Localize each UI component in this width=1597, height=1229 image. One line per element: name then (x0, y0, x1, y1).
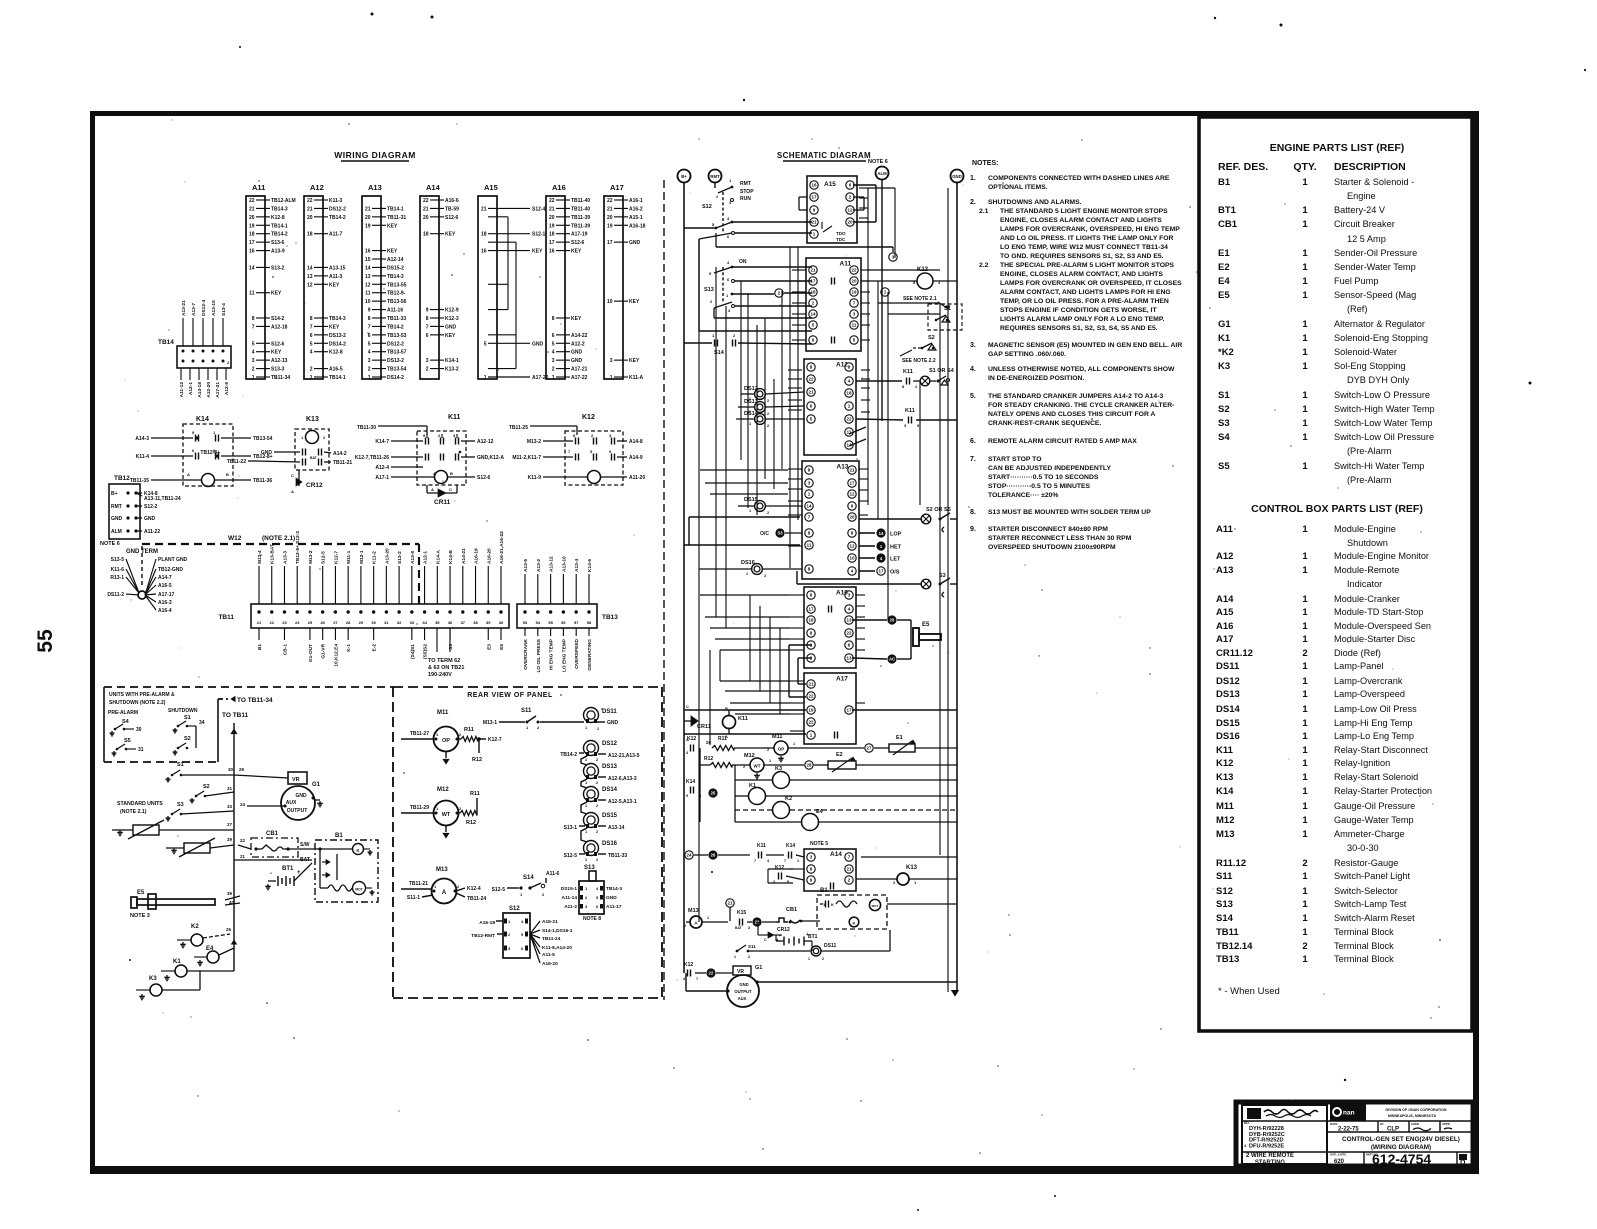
svg-text:START··········0.5 TO 10 SECON: START··········0.5 TO 10 SECONDS (988, 474, 1099, 481)
svg-text:KEY: KEY (329, 282, 340, 288)
svg-text:1: 1 (1302, 418, 1308, 429)
svg-text:A12-1: A12-1 (423, 551, 429, 564)
svg-text:S2 OR S5: S2 OR S5 (926, 507, 951, 513)
svg-text:A13-20: A13-20 (384, 548, 390, 564)
svg-text:1: 1 (585, 858, 587, 862)
svg-text:2: 2 (252, 367, 255, 373)
svg-text:17: 17 (549, 240, 555, 246)
svg-text:K11: K11 (903, 369, 913, 375)
svg-text:K12-8: K12-8 (271, 215, 285, 221)
svg-text:+: + (806, 932, 809, 938)
svg-text:12 5 Amp: 12 5 Amp (1347, 234, 1386, 244)
svg-text:E-2: E-2 (372, 644, 378, 652)
svg-text:55: 55 (548, 620, 553, 625)
svg-text:A13-4: A13-4 (574, 559, 580, 572)
svg-text:1.: 1. (970, 175, 976, 182)
svg-text:Module-Cranker: Module-Cranker (1334, 594, 1400, 604)
svg-text:K12-7,TB11-26: K12-7,TB11-26 (355, 455, 389, 461)
svg-text:A13-15: A13-15 (329, 265, 346, 271)
svg-text:190-240V: 190-240V (428, 672, 452, 678)
svg-text:* - When Used: * - When Used (1218, 986, 1280, 997)
svg-text:A17-21: A17-21 (215, 382, 221, 398)
svg-text:13: 13 (365, 274, 371, 280)
svg-text:2: 2 (1302, 941, 1307, 952)
svg-text:SHUTDOWN (NOTE 2.2): SHUTDOWN (NOTE 2.2) (109, 700, 166, 706)
svg-text:21: 21 (365, 206, 371, 212)
svg-text:1: 1 (1302, 276, 1308, 287)
svg-text:TB11-34: TB11-34 (271, 375, 290, 381)
svg-text:18: 18 (808, 618, 814, 623)
svg-text:DS11: DS11 (1216, 661, 1240, 672)
svg-text:1: 1 (1302, 319, 1308, 330)
svg-text:A14: A14 (830, 851, 842, 858)
svg-text:TB14-2: TB14-2 (329, 215, 346, 221)
svg-text:TB14-2: TB14-2 (387, 324, 404, 330)
svg-text:7: 7 (252, 324, 255, 330)
svg-text:GND: GND (739, 982, 748, 987)
svg-text:A11-3: A11-3 (329, 274, 343, 280)
svg-text:A12-4: A12-4 (375, 465, 389, 471)
svg-text:DS11: DS11 (602, 709, 617, 715)
svg-text:22: 22 (607, 198, 613, 204)
svg-text:Switch-Selector: Switch-Selector (1334, 886, 1398, 896)
svg-text:K11-A: K11-A (629, 375, 644, 381)
svg-text:Relay-Ignition: Relay-Ignition (1334, 758, 1390, 768)
svg-text:IN DE-ENERGIZED POSITION.: IN DE-ENERGIZED POSITION. (988, 375, 1084, 382)
svg-text:TB11-22: TB11-22 (227, 459, 246, 465)
svg-text:TB11-33: TB11-33 (387, 316, 406, 322)
svg-text:(S4)S1: (S4)S1 (410, 644, 416, 659)
svg-text:START STOP TO: START STOP TO (988, 456, 1042, 463)
svg-text:DS16: DS16 (741, 560, 755, 566)
svg-text:Shutdown: Shutdown (1347, 538, 1388, 548)
svg-text:MAGNETIC SENSOR (E5) MOUNTED I: MAGNETIC SENSOR (E5) MOUNTED IN GEN END … (988, 342, 1182, 349)
svg-text:TB12-GND: TB12-GND (158, 567, 183, 573)
svg-text:A11-2: A11-2 (564, 904, 577, 910)
svg-text:Lamp-Overspeed: Lamp-Overspeed (1334, 689, 1405, 699)
svg-text:Switch-High Water Temp: Switch-High Water Temp (1334, 404, 1435, 414)
svg-text:A17-22: A17-22 (571, 375, 588, 381)
svg-text:A13-21: A13-21 (181, 300, 187, 316)
svg-text:GND: GND (629, 240, 641, 246)
svg-text:Terminal Block: Terminal Block (1334, 941, 1394, 951)
svg-text:14: 14 (879, 531, 884, 536)
svg-text:PRE-ALARM: PRE-ALARM (108, 710, 138, 716)
svg-text:K2: K2 (191, 924, 199, 930)
svg-text:1: 1 (1302, 333, 1308, 344)
svg-text:A13-2: A13-2 (536, 559, 542, 572)
svg-text:2: 2 (596, 781, 598, 785)
svg-text:8: 8 (252, 316, 255, 322)
svg-text:Lamp-Lo Eng Temp: Lamp-Lo Eng Temp (1334, 731, 1414, 741)
svg-text:22: 22 (709, 971, 714, 976)
svg-text:5: 5 (252, 341, 255, 347)
svg-text:MOT: MOT (355, 888, 363, 892)
svg-text:22: 22 (240, 838, 246, 843)
svg-text:LET: LET (890, 557, 901, 563)
svg-text:2: 2 (767, 412, 769, 416)
svg-text:10,K12,E4: 10,K12,E4 (333, 644, 339, 667)
svg-text:DS16: DS16 (602, 841, 618, 847)
svg-text:Sensor-Speed (Mag: Sensor-Speed (Mag (1334, 290, 1416, 300)
svg-text:22: 22 (808, 720, 814, 725)
svg-text:S1: S1 (1218, 390, 1230, 401)
svg-text:A11: A11 (1216, 524, 1234, 535)
svg-text:Fuel Pump: Fuel Pump (1334, 276, 1378, 286)
svg-text:MOT: MOT (872, 904, 879, 908)
svg-text:17: 17 (849, 481, 855, 486)
svg-text:1: 1 (610, 375, 613, 381)
svg-text:28: 28 (806, 763, 812, 768)
svg-text:16: 16 (249, 249, 255, 255)
svg-text:Module-Overspeed Sen: Module-Overspeed Sen (1334, 621, 1431, 631)
svg-text:6: 6 (552, 333, 555, 339)
svg-text:26: 26 (711, 853, 716, 858)
svg-text:A13-9: A13-9 (271, 249, 285, 255)
svg-text:DS14: DS14 (602, 787, 618, 793)
svg-text:S14: S14 (523, 875, 534, 881)
svg-text:NOTE 8: NOTE 8 (583, 916, 601, 922)
svg-text:31: 31 (138, 747, 144, 753)
svg-text:R12: R12 (466, 820, 476, 826)
svg-text:GND: GND (111, 516, 123, 522)
svg-text:8.: 8. (970, 509, 976, 516)
svg-text:54: 54 (536, 620, 541, 625)
svg-text:TB11: TB11 (1216, 927, 1239, 938)
svg-text:B1: B1 (335, 833, 343, 839)
svg-text:K14: K14 (1216, 786, 1234, 797)
svg-text:7: 7 (426, 324, 429, 330)
svg-text:Switch-Low Water Temp: Switch-Low Water Temp (1334, 418, 1433, 428)
svg-text:LO ENG TEMP: LO ENG TEMP (561, 638, 567, 672)
svg-text:27: 27 (333, 620, 338, 625)
svg-text:20: 20 (890, 618, 895, 623)
svg-text:G1-OUT: G1-OUT (308, 644, 314, 662)
svg-text:E5: E5 (922, 622, 930, 628)
svg-text:SEE NOTE 2.1: SEE NOTE 2.1 (903, 296, 937, 302)
svg-text:17: 17 (878, 569, 884, 574)
svg-text:K11-8,A14-20: K11-8,A14-20 (542, 945, 572, 951)
svg-text:LO ENG TEMP, WIRE W12 MUST CON: LO ENG TEMP, WIRE W12 MUST CONNECT TB11-… (1000, 244, 1168, 251)
svg-text:25: 25 (711, 791, 716, 796)
svg-text:1: 1 (1302, 772, 1308, 783)
svg-text:K14-1: K14-1 (445, 358, 459, 364)
svg-text:1: 1 (749, 509, 751, 513)
svg-text:B+: B+ (111, 491, 118, 497)
svg-text:A: A (431, 487, 434, 492)
svg-text:1: 1 (1302, 607, 1308, 618)
svg-text:D: D (1460, 1158, 1466, 1167)
svg-text:FOR STEADY CRANKING. THE CYCLE: FOR STEADY CRANKING. THE CYCLE CRANKER A… (988, 402, 1174, 409)
svg-text:REMOTE ALARM CIRCUIT RATED 5 A: REMOTE ALARM CIRCUIT RATED 5 AMP MAX (988, 438, 1137, 445)
svg-text:Module-TD Start-Stop: Module-TD Start-Stop (1334, 607, 1423, 617)
svg-text:M11: M11 (437, 710, 449, 716)
svg-text:CR11.12: CR11.12 (1216, 648, 1253, 659)
svg-text:DESCRIPTION: DESCRIPTION (1334, 161, 1406, 173)
svg-text:S1 OR S4: S1 OR S4 (929, 368, 955, 374)
svg-text:ENGINE PARTS LIST (REF): ENGINE PARTS LIST (REF) (1270, 142, 1405, 154)
svg-text:K13-BAT: K13-BAT (270, 544, 276, 564)
svg-text:A11-22: A11-22 (144, 529, 160, 535)
svg-text:12: 12 (307, 282, 313, 288)
svg-text:S13-3: S13-3 (271, 367, 285, 373)
svg-text:E5: E5 (137, 890, 145, 896)
svg-text:G1: G1 (755, 965, 762, 971)
svg-text:22: 22 (423, 198, 429, 204)
svg-text:2.: 2. (970, 199, 976, 206)
svg-text:3: 3 (368, 358, 371, 364)
svg-text:S5: S5 (1218, 461, 1230, 472)
svg-text:1: 1 (585, 781, 587, 785)
svg-text:A11: A11 (840, 261, 852, 268)
svg-text:2: 2 (368, 367, 371, 373)
svg-text:DS12: DS12 (744, 386, 758, 392)
svg-text:BAT: BAT (310, 456, 318, 460)
svg-text:20: 20 (607, 215, 613, 221)
svg-text:S13: S13 (1216, 899, 1233, 910)
svg-text:REF. DES.: REF. DES. (1218, 161, 1268, 173)
svg-text:21: 21 (249, 206, 255, 212)
svg-text:Lamp-Overcrank: Lamp-Overcrank (1334, 676, 1403, 686)
svg-text:OVERCRANK: OVERCRANK (523, 638, 529, 669)
svg-text:R11.12: R11.12 (1216, 858, 1246, 869)
svg-text:DS16: DS16 (1216, 731, 1240, 742)
svg-text:Module-Engine: Module-Engine (1334, 524, 1396, 534)
svg-text:1: 1 (1302, 461, 1308, 472)
svg-text:ALM: ALM (877, 171, 887, 176)
svg-text:K11-9: K11-9 (528, 475, 542, 481)
svg-text:10: 10 (849, 556, 855, 561)
svg-text:33: 33 (410, 620, 415, 625)
svg-text:4: 4 (310, 350, 313, 356)
svg-text:58: 58 (587, 620, 592, 625)
svg-text:1: 1 (1302, 886, 1308, 897)
svg-text:K14: K14 (196, 416, 209, 423)
svg-text:E2: E2 (836, 752, 843, 758)
svg-text:1: 1 (1302, 758, 1308, 769)
svg-text:TB11-31: TB11-31 (387, 215, 406, 221)
svg-text:GND: GND (445, 324, 457, 330)
svg-text:OP: OP (442, 738, 450, 744)
svg-text:CR12: CR12 (306, 482, 323, 489)
svg-text:GND: GND (607, 720, 619, 726)
svg-text:B1: B1 (820, 888, 828, 894)
svg-text:STOPS ENGINE IF CONDITION GETS: STOPS ENGINE IF CONDITION GETS WORSE, IT (1000, 307, 1157, 314)
svg-text:A13-3: A13-3 (282, 551, 288, 564)
svg-text:21: 21 (808, 682, 814, 687)
svg-text:S14-1,DS16-1: S14-1,DS16-1 (542, 928, 573, 934)
svg-text:A14-18: A14-18 (197, 382, 203, 398)
svg-text:A13: A13 (837, 464, 849, 471)
svg-text:S3: S3 (448, 644, 454, 650)
svg-text:TB11-39: TB11-39 (571, 223, 590, 229)
svg-text:K: K (853, 921, 856, 926)
svg-text:Switch-Low O Pressure: Switch-Low O Pressure (1334, 390, 1430, 400)
svg-text:TB11-29: TB11-29 (410, 805, 429, 811)
svg-text:A17-1: A17-1 (375, 475, 389, 481)
svg-text:S12: S12 (702, 204, 712, 210)
svg-text:B1: B1 (257, 644, 263, 650)
svg-text:S1: S1 (177, 762, 184, 768)
svg-text:DS13-2: DS13-2 (387, 358, 404, 364)
svg-text:Gauge-Water Temp: Gauge-Water Temp (1334, 815, 1414, 825)
svg-text:30: 30 (371, 620, 376, 625)
svg-text:B: B (450, 471, 453, 476)
svg-text:THE STANDARD CRANKER JUMPERS A: THE STANDARD CRANKER JUMPERS A14-2 TO A1… (988, 393, 1163, 400)
svg-text:21: 21 (849, 468, 855, 473)
svg-text:Module-Starter Disc: Module-Starter Disc (1334, 634, 1416, 644)
svg-text:19: 19 (607, 223, 613, 229)
svg-text:22: 22 (846, 631, 852, 636)
svg-text:2: 2 (767, 511, 769, 515)
svg-text:25: 25 (308, 620, 313, 625)
svg-text:M13-2: M13-2 (308, 550, 314, 564)
svg-text:A11-7: A11-7 (329, 232, 343, 238)
svg-text:DS15-2: DS15-2 (387, 265, 404, 271)
svg-text:1: 1 (368, 375, 371, 381)
svg-text:2: 2 (767, 424, 769, 428)
svg-text:1: 1 (734, 955, 736, 959)
svg-text:K12-7: K12-7 (333, 551, 339, 564)
svg-text:2: 2 (596, 830, 598, 834)
svg-text:A16-18: A16-18 (479, 920, 495, 926)
svg-text:20: 20 (549, 215, 555, 221)
svg-text:18: 18 (481, 232, 487, 238)
svg-text:AUX: AUX (738, 996, 747, 1001)
svg-text:S13-5: S13-5 (111, 557, 125, 563)
svg-text:GENERATING: GENERATING (587, 639, 593, 671)
svg-text:4: 4 (252, 350, 255, 356)
svg-text:1: 1 (769, 759, 771, 763)
svg-text:K12-4: K12-4 (467, 886, 481, 892)
svg-text:TO GND. REQUIRES SENSORS S1, S: TO GND. REQUIRES SENSORS S1, S2, S3 AND … (1000, 253, 1164, 260)
svg-text:OVERSPEED SHUTDOWN 2100±90RPM: OVERSPEED SHUTDOWN 2100±90RPM (988, 544, 1116, 551)
svg-text:3.: 3. (970, 342, 976, 349)
svg-text:A13-14: A13-14 (608, 825, 625, 831)
svg-text:LO OIL PRESS: LO OIL PRESS (536, 638, 542, 672)
svg-text:A16-1: A16-1 (629, 198, 643, 204)
svg-text:S11: S11 (1216, 871, 1233, 882)
svg-text:18: 18 (846, 391, 852, 396)
svg-text:21: 21 (481, 206, 487, 212)
svg-text:A11: A11 (252, 183, 265, 192)
svg-text:2: 2 (596, 758, 598, 762)
svg-text:K11-3: K11-3 (329, 198, 343, 204)
svg-text:OUTPUT: OUTPUT (287, 808, 308, 814)
svg-text:NOTES:: NOTES: (972, 160, 998, 167)
svg-text:33: 33 (227, 804, 233, 809)
svg-text:1: 1 (1302, 927, 1308, 938)
svg-text:TB13: TB13 (1216, 954, 1239, 965)
svg-text:7.: 7. (970, 456, 976, 463)
svg-text:27: 27 (227, 822, 233, 827)
svg-text:8: 8 (552, 316, 555, 322)
svg-text:24: 24 (295, 620, 300, 625)
svg-text:QTY.: QTY. (1293, 161, 1316, 173)
svg-text:A17-17: A17-17 (158, 592, 175, 598)
svg-text:2: 2 (1302, 648, 1307, 659)
svg-text:21: 21 (257, 620, 262, 625)
svg-text:30: 30 (136, 727, 142, 733)
svg-text:M11-2,K11-7: M11-2,K11-7 (512, 455, 541, 461)
svg-text:DS14: DS14 (1216, 704, 1240, 715)
svg-text:1: 1 (1302, 219, 1308, 230)
svg-text:1: 1 (585, 758, 587, 762)
svg-text:22: 22 (307, 198, 313, 204)
svg-text:Lamp-Panel: Lamp-Panel (1334, 661, 1384, 671)
svg-text:NOTE 6: NOTE 6 (100, 541, 120, 547)
svg-text:KEY: KEY (329, 324, 340, 330)
svg-text:1: 1 (1302, 689, 1308, 700)
svg-text:31: 31 (227, 786, 233, 791)
svg-text:1: 1 (1302, 815, 1308, 826)
svg-text:34: 34 (199, 720, 205, 726)
svg-text:DS12-4: DS12-4 (201, 299, 207, 316)
svg-text:K14-B: K14-B (448, 550, 454, 564)
svg-text:K1: K1 (1218, 333, 1231, 344)
svg-text:TB13-57: TB13-57 (387, 350, 407, 356)
svg-text:S12-2: S12-2 (144, 504, 158, 510)
svg-text:A17: A17 (1216, 634, 1233, 645)
svg-text:2: 2 (1302, 858, 1307, 869)
svg-text:S1: S1 (944, 306, 951, 312)
svg-text:1: 1 (1302, 899, 1308, 910)
svg-text:21: 21 (240, 854, 246, 859)
svg-text:K11-2: K11-2 (372, 551, 378, 564)
svg-text:SHUTDOWNS AND ALARMS.: SHUTDOWNS AND ALARMS. (988, 199, 1082, 206)
svg-text:UNITS WITH PRE-ALARM &: UNITS WITH PRE-ALARM & (109, 692, 175, 698)
svg-text:NATELY OPENS AND CLOSES THIS C: NATELY OPENS AND CLOSES THIS CIRCUIT FOR… (988, 411, 1156, 418)
svg-text:2: 2 (764, 574, 766, 578)
svg-text:R11: R11 (718, 736, 727, 742)
svg-text:1: 1 (1302, 390, 1308, 401)
svg-text:612-4754: 612-4754 (1372, 1151, 1431, 1167)
svg-text:DYB DYH Only: DYB DYH Only (1347, 375, 1410, 385)
svg-text:K13-2: K13-2 (445, 367, 459, 373)
svg-text:M13: M13 (688, 908, 699, 914)
svg-text:TB11-25: TB11-25 (509, 425, 528, 431)
svg-text:Resistor-Gauge: Resistor-Gauge (1334, 858, 1398, 868)
svg-text:3: 3 (610, 358, 613, 364)
svg-text:S12: S12 (509, 906, 520, 912)
svg-text:Relay-Start Disconnect: Relay-Start Disconnect (1334, 745, 1428, 755)
svg-text:18: 18 (549, 232, 555, 238)
svg-text:A13-15: A13-15 (211, 300, 217, 316)
svg-text:AUX: AUX (286, 800, 297, 806)
svg-text:TB11-21: TB11-21 (409, 881, 428, 887)
svg-text:NOTE 3: NOTE 3 (130, 913, 150, 919)
svg-text:RUN: RUN (740, 196, 751, 202)
svg-text:19: 19 (365, 223, 371, 229)
svg-text:K12: K12 (1216, 758, 1233, 769)
svg-text:1: 1 (1302, 177, 1308, 188)
svg-text:18: 18 (249, 232, 255, 238)
svg-text:STARTING: STARTING (1255, 1160, 1286, 1166)
svg-text:DS11: DS11 (824, 943, 836, 949)
svg-text:TB14-1: TB14-1 (387, 206, 404, 212)
svg-text:12: 12 (365, 282, 371, 288)
svg-text:STOP··········-0.5 TO 5 MINUTE: STOP··········-0.5 TO 5 MINUTES (988, 483, 1091, 490)
svg-text:40: 40 (499, 620, 504, 625)
svg-text:KEY: KEY (571, 249, 582, 255)
svg-text:B+: B+ (681, 174, 687, 179)
svg-text:A14-8: A14-8 (629, 439, 643, 445)
svg-text:10: 10 (365, 299, 371, 305)
svg-text:K11: K11 (905, 408, 915, 414)
svg-text:1: 1 (707, 916, 709, 920)
svg-text:MINNEAPOLIS, MINNESOTA: MINNEAPOLIS, MINNESOTA (1388, 1114, 1437, 1118)
svg-text:20: 20 (851, 279, 857, 284)
